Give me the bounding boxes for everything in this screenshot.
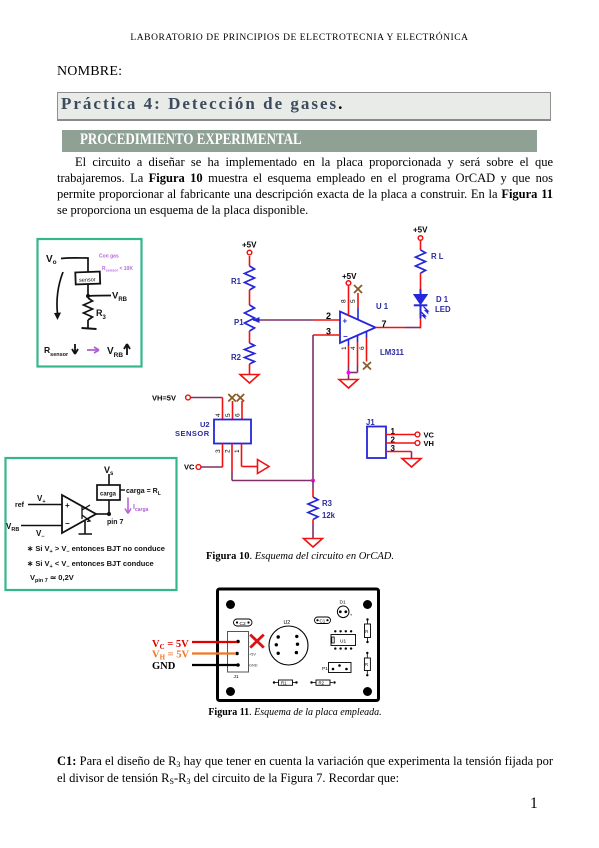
svg-text:VH=5V: VH=5V [152, 394, 176, 403]
no-connect X pin6 [363, 362, 371, 370]
capacitor C2 footprint [234, 619, 253, 627]
mounting hole bottom-right [363, 687, 372, 696]
note box 2 frame [6, 458, 177, 590]
wire sensor pin1 to off-page [242, 444, 258, 467]
section bar [62, 130, 537, 152]
svg-text:Con gas: Con gas [99, 254, 119, 260]
junction (node R3) [311, 479, 315, 483]
svg-text:LM311: LM311 [380, 348, 404, 357]
connector J1 footprint [228, 632, 258, 681]
svg-text:Rsensor: Rsensor [44, 345, 69, 358]
wire [420, 273, 422, 289]
mounting hole top-left [226, 600, 235, 609]
annotation carga = RL [120, 488, 161, 497]
svg-text:−: − [65, 519, 70, 528]
wire [241, 401, 243, 420]
svg-text:C2: C2 [240, 621, 246, 627]
svg-text:Vo: Vo [46, 254, 57, 266]
svg-text:4: 4 [215, 413, 222, 417]
power +5V (RL) [413, 226, 428, 241]
junction [347, 371, 351, 375]
wire pin1 to VC [386, 434, 415, 436]
no-connect X (PCB) [250, 635, 264, 648]
resistor R1 [231, 266, 255, 290]
ground (sketch) [82, 328, 97, 329]
wire pin2 to VH [386, 442, 415, 444]
ground (J1) [402, 459, 421, 468]
svg-text:R: R [365, 662, 368, 667]
diode D1 LED [414, 289, 451, 319]
svg-text:+5V: +5V [242, 241, 257, 250]
svg-text:R3: R3 [96, 308, 107, 321]
svg-text:R2: R2 [231, 353, 242, 362]
terminal VC [184, 463, 201, 472]
annotation Vc = 5V [152, 639, 237, 651]
svg-text:GND: GND [152, 661, 176, 672]
pin 7 output [376, 319, 421, 329]
input VRB [6, 522, 62, 540]
paragraph 1 [57, 154, 553, 218]
no-connect X pin5 [354, 285, 362, 293]
wire [61, 258, 88, 272]
node junction [86, 294, 90, 298]
wire [232, 401, 234, 420]
title box [57, 92, 551, 121]
wire [87, 320, 89, 328]
svg-text:VC: VC [184, 463, 195, 472]
wire [249, 364, 251, 375]
resistor RL [416, 250, 444, 273]
LED D1 footprint [337, 600, 352, 618]
nombre [57, 64, 122, 80]
svg-text:+: + [65, 501, 70, 510]
resistor R3 (sketch) [84, 298, 107, 321]
potentiometer P1 footprint [322, 663, 351, 673]
svg-text:sensor: sensor [79, 277, 96, 284]
svg-text:+: + [343, 317, 348, 326]
svg-text:5: 5 [350, 299, 357, 303]
wire to VRB [88, 295, 111, 298]
wire P1 wiper to pin2 [259, 319, 340, 321]
wire [312, 520, 314, 539]
wire pin6 [366, 331, 368, 338]
svg-text:ref: ref [15, 502, 25, 509]
svg-text:1: 1 [234, 449, 241, 453]
page number [530, 795, 538, 813]
terminal VH (J1) [415, 439, 434, 448]
svg-text:R: R [365, 629, 368, 634]
svg-text:R2: R2 [319, 681, 325, 686]
svg-text:P1: P1 [234, 318, 244, 327]
svg-text:8: 8 [341, 299, 348, 303]
svg-text:P1: P1 [322, 666, 328, 672]
svg-text:Vpin 7 ≃ 0,2V: Vpin 7 ≃ 0,2V [30, 573, 74, 584]
wire pin4 [349, 335, 358, 373]
svg-text:D1: D1 [340, 600, 346, 606]
svg-text:J1: J1 [234, 674, 239, 680]
svg-text:6: 6 [359, 346, 366, 350]
svg-text:5: 5 [225, 413, 232, 417]
ground (sketch op-amp) [79, 521, 93, 534]
svg-text:LED: LED [435, 305, 451, 314]
wire [87, 284, 89, 296]
sensor U2 footprint [269, 620, 308, 665]
svg-text:∗ Si V+ > V− entonces BJT no: ∗ Si V+ > V− entonces BJT no conduce [27, 544, 165, 555]
svg-text:+5V: +5V [342, 272, 357, 281]
wire pin5 [357, 293, 359, 320]
terminal VC (J1) [415, 431, 434, 440]
svg-text:12k: 12k [322, 511, 336, 520]
power +5V (divider) [242, 241, 257, 255]
svg-text:2: 2 [326, 311, 331, 321]
resistor R3 12k [308, 497, 336, 520]
sensor U2 [175, 420, 251, 444]
paragraph C1 [57, 753, 553, 787]
header [0, 33, 599, 43]
current arrow [57, 272, 63, 314]
off-page connector [258, 460, 270, 474]
svg-text:pin 7: pin 7 [107, 519, 123, 526]
svg-text:R1: R1 [281, 681, 287, 686]
mounting hole bottom-left [226, 687, 235, 696]
svg-text:VH = 5V: VH = 5V [152, 650, 190, 662]
resistor R2 footprint [310, 680, 335, 686]
annotation con gas [99, 254, 133, 273]
sensor box (sketch) [75, 272, 100, 285]
connector J1 [366, 418, 386, 458]
wire [96, 513, 109, 515]
power +5V (U1) [342, 272, 357, 285]
mounting hole top-right [363, 600, 372, 609]
caption figura 11 [95, 707, 495, 718]
wire [249, 331, 251, 343]
wire [420, 319, 422, 329]
wire sensor pin2 down [232, 444, 313, 481]
svg-text:SENSOR: SENSOR [175, 429, 210, 438]
svg-text:Rsensor < 10K: Rsensor < 10K [102, 266, 133, 273]
svg-text:U 1: U 1 [376, 302, 389, 311]
svg-text:U1: U1 [340, 639, 346, 645]
svg-text:+5V: +5V [249, 653, 256, 657]
annotation Rsensor down [44, 344, 130, 359]
wire pin3 [313, 335, 340, 481]
svg-text:4: 4 [350, 346, 357, 350]
svg-text:R1: R1 [231, 277, 242, 286]
resistor R1 footprint [273, 680, 298, 686]
svg-text:+5V: +5V [413, 226, 428, 235]
wire [249, 290, 251, 305]
no-connect X sensor pin6 [237, 394, 245, 402]
resistor R2 [231, 343, 255, 364]
capacitor C1 footprint [315, 617, 331, 624]
wire [108, 500, 110, 514]
svg-text:VH: VH [424, 439, 434, 448]
svg-text:carga = RL: carga = RL [126, 488, 161, 497]
wire [249, 256, 251, 266]
carga box (sketch) [97, 485, 120, 500]
svg-text:GND: GND [249, 664, 258, 668]
PCB board outline [218, 589, 379, 701]
svg-text:6: 6 [235, 413, 242, 417]
note text lines [27, 544, 165, 584]
wire VH to pin4 [191, 398, 223, 420]
annotation GND [152, 661, 237, 672]
svg-text:∗ Si V+ < V− entonces BJT co: ∗ Si V+ < V− entonces BJT conduce [27, 559, 154, 570]
svg-text:·: · [249, 641, 250, 645]
resistor R3 footprint [364, 652, 370, 677]
note box 1 frame [38, 239, 142, 367]
svg-text:VRB: VRB [112, 291, 128, 304]
input ref [15, 494, 62, 509]
svg-text:1: 1 [341, 346, 348, 350]
ground (R3) [304, 539, 323, 548]
wire [420, 241, 422, 251]
svg-text:2: 2 [225, 449, 232, 453]
svg-text:V+: V+ [37, 494, 46, 505]
svg-text:VRB: VRB [6, 522, 19, 533]
op-amp U1 LM311 [340, 302, 404, 357]
wire pin1 [348, 339, 350, 380]
resistor RL footprint [365, 618, 371, 643]
caption figura 10 [100, 551, 500, 562]
svg-text:VRB: VRB [107, 346, 123, 359]
potentiometer P1 [234, 305, 260, 331]
svg-text:U2: U2 [200, 420, 210, 429]
current Icarga arrow [125, 498, 149, 514]
svg-text:D 1: D 1 [436, 295, 449, 304]
wire [108, 474, 110, 485]
svg-text:carga: carga [100, 492, 117, 498]
IC U1 footprint [331, 630, 356, 650]
node pin7 [107, 512, 111, 516]
wire [312, 481, 314, 498]
annotation Vh = 5V [152, 650, 236, 662]
wire pin3 to ground [386, 452, 412, 459]
svg-text:C1: C1 [320, 618, 326, 623]
svg-text:R3: R3 [322, 499, 333, 508]
wire pin8 [348, 286, 350, 316]
svg-text:V−: V− [36, 529, 45, 540]
svg-text:+: + [350, 613, 353, 618]
no-connect X sensor pin5 [228, 394, 236, 402]
terminal VH=5V [152, 394, 190, 403]
ground (U1) [339, 380, 358, 389]
svg-text:R L: R L [431, 252, 444, 261]
op-amp (sketch) [62, 495, 96, 533]
svg-text:−: − [343, 332, 348, 341]
svg-text:Icarga: Icarga [133, 504, 149, 513]
svg-text:U2: U2 [284, 620, 291, 626]
ground (divider) [240, 375, 259, 384]
svg-text:3: 3 [215, 449, 222, 453]
wire VC to sensor pin3 [201, 444, 223, 468]
